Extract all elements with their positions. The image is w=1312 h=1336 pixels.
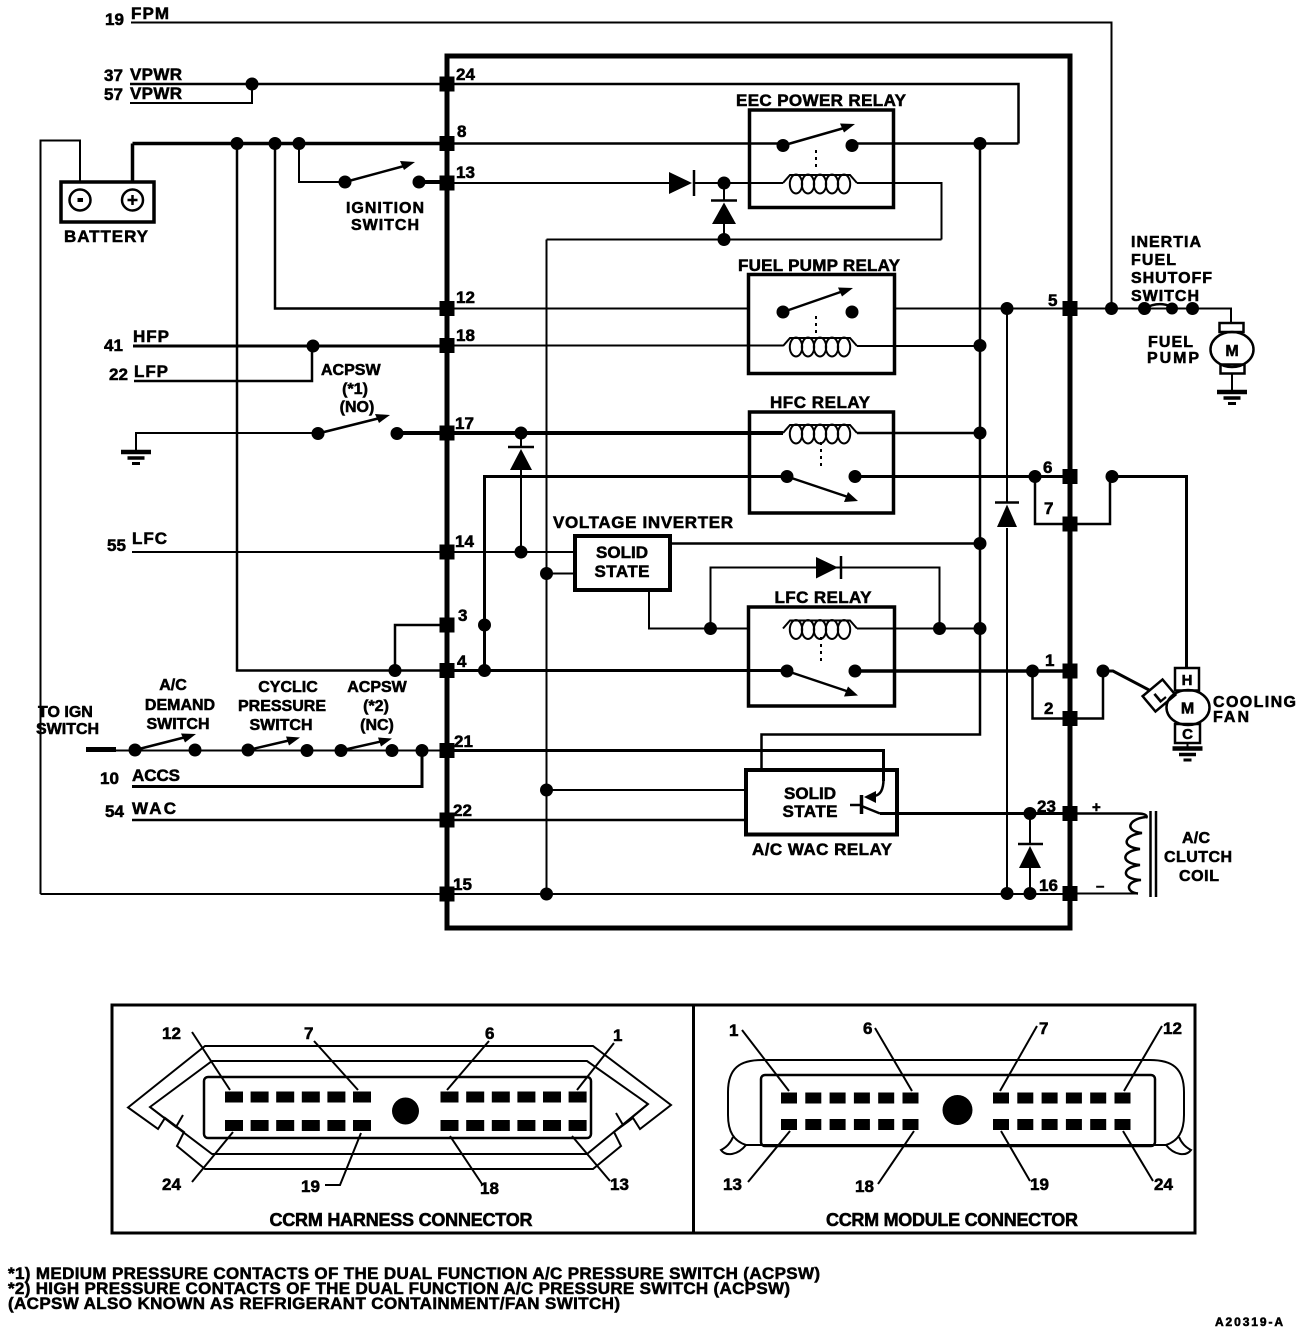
wire inverter output bottom to LFC coil xyxy=(649,590,748,629)
svg-text:IGNITION: IGNITION xyxy=(346,200,424,217)
pin 8 pad xyxy=(440,136,455,151)
diode D1 on pin 13 row xyxy=(669,170,694,196)
wire EEC coil return loop xyxy=(547,183,942,240)
diode D2 vertical at EEC coil xyxy=(711,183,737,240)
svg-text:(ACPSW ALSO KNOWN AS REFRIGERA: (ACPSW ALSO KNOWN AS REFRIGERANT CONTAIN… xyxy=(8,1294,620,1313)
svg-text:FUEL: FUEL xyxy=(1148,334,1193,351)
svg-text:A/C WAC RELAY: A/C WAC RELAY xyxy=(752,840,893,859)
wire pin 23 to clutch coil xyxy=(1074,812,1137,815)
svg-text:VPWR: VPWR xyxy=(130,84,182,103)
svg-text:12: 12 xyxy=(456,288,475,307)
junction pin 5 diode branch xyxy=(1001,302,1014,315)
junction supply bus LFC coil xyxy=(974,622,987,635)
svg-text:BATTERY: BATTERY xyxy=(64,227,149,246)
wire inverter output right to supply bus xyxy=(670,542,980,545)
wire pin 17 row to HFC coil xyxy=(451,431,783,435)
wire FPM to inertia switch xyxy=(131,23,1112,309)
wire EEC coil leads xyxy=(751,182,892,184)
LFC relay U5 xyxy=(749,607,895,706)
svg-text:10: 10 xyxy=(100,769,119,788)
CCRM module connector center post xyxy=(943,1095,973,1125)
wire VPWR 37 to pin 24 xyxy=(130,83,443,86)
wire pin 6 to cooling fan high xyxy=(1112,477,1187,670)
wire branch to pin 3 xyxy=(395,625,443,671)
WAC transistor symbol xyxy=(850,795,880,814)
svg-text:CCRM MODULE CONNECTOR: CCRM MODULE CONNECTOR xyxy=(826,1210,1078,1230)
pin 6 pad xyxy=(1063,469,1078,484)
svg-text:A/C: A/C xyxy=(159,677,187,694)
junction supply bus pin 18 xyxy=(974,339,987,352)
svg-text:55: 55 xyxy=(107,536,126,555)
pin 14 pad xyxy=(440,545,455,560)
svg-text:22: 22 xyxy=(453,801,472,820)
svg-text:(NO): (NO) xyxy=(340,399,375,416)
HFC relay U3 xyxy=(750,412,894,513)
pin 15 pad xyxy=(440,887,455,902)
wire ignition switch feed xyxy=(299,144,345,183)
wire stub to ignition switch xyxy=(86,747,116,752)
wire pin 1 to cooling fan low xyxy=(1103,671,1149,690)
wire pin 24 loop to supply bus xyxy=(451,84,1019,144)
svg-text:14: 14 xyxy=(455,532,474,551)
cooling fan motor M2 xyxy=(1143,668,1210,748)
junction pin 14 diode xyxy=(515,546,528,559)
junction VPWR xyxy=(246,78,259,91)
svg-text:CLUTCH: CLUTCH xyxy=(1164,849,1232,866)
CCRM harness connector shell hooks xyxy=(150,1104,648,1127)
svg-text:19: 19 xyxy=(1030,1175,1049,1194)
svg-text:1: 1 xyxy=(1045,651,1054,670)
junction jumper 1 right xyxy=(1097,665,1110,678)
wire pin 12 row to fuel pump relay xyxy=(451,308,748,310)
A/C clutch coil L1 xyxy=(1125,811,1156,897)
svg-text:(NC): (NC) xyxy=(360,717,394,734)
voltage inverter U4 solid state xyxy=(575,536,670,590)
fuel pump relay U2 xyxy=(749,275,895,374)
svg-text:STATE: STATE xyxy=(783,802,838,821)
ignition switch S1 xyxy=(339,161,426,189)
svg-text:M: M xyxy=(1225,343,1238,360)
svg-text:VPWR: VPWR xyxy=(130,65,182,84)
svg-text:ACPSW: ACPSW xyxy=(321,362,381,379)
svg-text:EEC POWER RELAY: EEC POWER RELAY xyxy=(736,91,907,110)
svg-text:6: 6 xyxy=(485,1024,494,1043)
junction supply bus top xyxy=(974,137,987,150)
junction pin 13 diode branch xyxy=(718,177,731,190)
fuel pump motor M1 xyxy=(1211,323,1254,392)
ACPSW NO switch S2 xyxy=(312,414,404,440)
svg-text:SWITCH: SWITCH xyxy=(249,717,312,734)
wire LFP joins HFP xyxy=(134,346,312,381)
svg-text:SHUTOFF: SHUTOFF xyxy=(1131,270,1212,287)
svg-text:24: 24 xyxy=(1154,1175,1173,1194)
svg-text:37: 37 xyxy=(104,66,123,85)
svg-text:SWITCH: SWITCH xyxy=(351,217,419,234)
svg-text:16: 16 xyxy=(1039,876,1058,895)
svg-text:LFC RELAY: LFC RELAY xyxy=(775,588,873,607)
diode D3 at pin 14 xyxy=(508,433,534,552)
wire battery feed down to pin 12 xyxy=(275,144,443,309)
junction clutch diode bottom xyxy=(1024,887,1037,900)
wire ignition switch to pin 13 xyxy=(419,180,443,184)
wire inverter ground tap xyxy=(547,573,578,575)
wire LFC coil to supply bus xyxy=(857,628,980,630)
ground symbol cooling fan xyxy=(1173,749,1203,761)
svg-text:13: 13 xyxy=(456,163,475,182)
junction battery feed branch A xyxy=(231,137,244,150)
junction pin 4 branch xyxy=(478,664,491,677)
svg-text:24: 24 xyxy=(162,1175,181,1194)
svg-text:SWITCH: SWITCH xyxy=(36,721,99,738)
svg-text:LFP: LFP xyxy=(134,362,168,381)
svg-text:19: 19 xyxy=(105,10,124,29)
svg-text:1: 1 xyxy=(729,1021,738,1040)
svg-text:FPM: FPM xyxy=(131,4,169,23)
wire A/C switch chain xyxy=(112,750,443,752)
svg-text:C: C xyxy=(1182,726,1193,743)
svg-text:8: 8 xyxy=(457,122,466,141)
CCRM harness connector pins top row xyxy=(225,1092,587,1103)
junction ground bus inverter tap xyxy=(540,567,553,580)
svg-text:24: 24 xyxy=(456,65,475,84)
junction ground bus pin 15 xyxy=(540,888,553,901)
LFC relay coil xyxy=(783,620,857,639)
battery B1 xyxy=(61,182,154,222)
svg-text:SWITCH: SWITCH xyxy=(146,716,209,733)
svg-text:17: 17 xyxy=(455,414,474,433)
svg-text:18: 18 xyxy=(480,1179,499,1198)
junction HFP-LFP xyxy=(307,340,320,353)
junction jumper 1 left xyxy=(1026,665,1039,678)
svg-text:7: 7 xyxy=(1044,499,1053,518)
wire pin 13 row xyxy=(451,182,748,184)
EEC power relay U1 xyxy=(750,110,894,208)
svg-text:STATE: STATE xyxy=(595,562,650,581)
CCRM harness connector shell inner xyxy=(150,1061,648,1154)
wire pin 18 row xyxy=(451,345,980,348)
svg-text:13: 13 xyxy=(723,1175,742,1194)
wire WAC output to pin 23 xyxy=(880,812,1066,815)
svg-text:(*1): (*1) xyxy=(342,381,368,398)
svg-text:1: 1 xyxy=(613,1026,622,1045)
pin 17 pad xyxy=(440,426,455,441)
wire pin 21 row xyxy=(451,751,884,782)
junction pins 3-4 split xyxy=(389,664,402,677)
svg-text:TO IGN: TO IGN xyxy=(38,704,93,721)
pin 1 pad xyxy=(1063,664,1078,679)
wire battery negative to left rail xyxy=(41,141,81,895)
junction clutch diode top xyxy=(1024,807,1037,820)
svg-text:CCRM HARNESS CONNECTOR: CCRM HARNESS CONNECTOR xyxy=(270,1210,533,1230)
CCRM harness connector pins bottom row xyxy=(225,1120,587,1131)
junction ACCS tie xyxy=(416,744,429,757)
junction jumper 6 right xyxy=(1106,470,1119,483)
diode D4 pin 5 branch xyxy=(995,309,1019,894)
CCRM module connector pins top row xyxy=(781,1093,1131,1104)
diode D5 loop over LFC coil xyxy=(711,556,940,629)
pin 23 pad xyxy=(1063,806,1078,821)
CCRM module connector pin field xyxy=(761,1075,1155,1146)
wire battery feed down to pins 3 and 4 xyxy=(237,144,395,671)
wire pin 22 row to WAC xyxy=(451,819,746,822)
wire pin 3 to HFC switch xyxy=(485,477,788,671)
svg-text:19: 19 xyxy=(301,1177,320,1196)
svg-text:SWITCH: SWITCH xyxy=(1131,288,1199,305)
wire ground bus vertical xyxy=(546,240,548,895)
svg-text:12: 12 xyxy=(162,1024,181,1043)
svg-text:VOLTAGE INVERTER: VOLTAGE INVERTER xyxy=(553,513,733,532)
svg-text:LFC: LFC xyxy=(132,529,167,548)
CCRM module connector pins bottom row xyxy=(781,1119,1131,1130)
svg-text:2: 2 xyxy=(1044,699,1053,718)
wire pin 4 row to LFC switch xyxy=(451,669,787,672)
svg-text:M: M xyxy=(1181,701,1194,718)
svg-text:INERTIA: INERTIA xyxy=(1131,234,1201,251)
inertia fuel shutoff switch S6 xyxy=(1138,302,1199,315)
fuel pump relay coil xyxy=(783,338,857,357)
pin 24 pad xyxy=(440,77,455,92)
jumper pins 6-7 xyxy=(1035,477,1110,525)
pin 5 pad xyxy=(1063,301,1078,316)
svg-text:21: 21 xyxy=(454,732,473,751)
ACPSW NC switch S5 xyxy=(335,738,399,758)
pin 12 pad xyxy=(440,301,455,316)
svg-text:7: 7 xyxy=(304,1024,313,1043)
svg-text:SOLID: SOLID xyxy=(784,784,836,803)
svg-text:18: 18 xyxy=(456,326,475,345)
svg-text:5: 5 xyxy=(1048,291,1057,310)
wire fuel relay output to pin 5 xyxy=(894,308,1066,310)
pin 22 pad xyxy=(440,813,455,828)
EEC relay coil xyxy=(783,175,857,194)
pin 7 pad xyxy=(1063,517,1078,532)
CCRM harness connector center post xyxy=(392,1098,419,1125)
connector section outer box xyxy=(112,1005,1195,1233)
junction diode D4 to ground row xyxy=(1001,887,1014,900)
HFC relay coil xyxy=(783,425,857,444)
ground symbol fuel pump xyxy=(1217,392,1247,404)
CCRM harness connector shell outer xyxy=(128,1046,671,1169)
svg-text:57: 57 xyxy=(104,85,123,104)
wire pin 5 to fuel pump xyxy=(1074,309,1231,324)
svg-text:3: 3 xyxy=(458,606,467,625)
diode D6 clutch suppression xyxy=(1018,814,1043,894)
junction battery feed ignition branch xyxy=(293,137,306,150)
wire HFP to pin 18 xyxy=(133,345,443,348)
svg-text:ACPSW: ACPSW xyxy=(347,679,407,696)
svg-text:A/C: A/C xyxy=(1182,830,1210,847)
junction LFC diode loop right xyxy=(933,622,946,635)
junction jumper 6 left xyxy=(1029,470,1042,483)
junction supply bus inverter output xyxy=(974,537,987,550)
pin 18 pad xyxy=(440,338,455,353)
junction pin 17 supply dot xyxy=(515,427,528,440)
svg-text:FAN: FAN xyxy=(1213,709,1249,726)
wire LFC to pin 14 xyxy=(132,551,443,553)
wire vertical supply bus xyxy=(762,144,981,769)
svg-text:12: 12 xyxy=(1163,1019,1182,1038)
wire WAC control hook xyxy=(874,779,884,796)
svg-text:6: 6 xyxy=(1043,458,1052,477)
svg-text:(*2): (*2) xyxy=(363,698,389,715)
junction FPM at pin 5 wire xyxy=(1105,302,1118,315)
svg-text:FUEL: FUEL xyxy=(1131,252,1176,269)
svg-text:SOLID: SOLID xyxy=(596,543,648,562)
svg-text:COIL: COIL xyxy=(1179,868,1219,885)
junction pin 3 branch xyxy=(478,619,491,632)
wire VPWR 57 joins VPWR 37 xyxy=(130,84,252,103)
wire WAC to pin 22 xyxy=(132,819,443,822)
wire HFC coil to supply bus xyxy=(857,432,980,435)
A/C demand switch S3 xyxy=(129,734,202,757)
svg-text:PRESSURE: PRESSURE xyxy=(238,698,326,715)
pin 21 pad xyxy=(440,743,455,758)
CCRM harness connector pin field xyxy=(204,1077,591,1138)
arrow into WAC transistor xyxy=(864,791,876,803)
svg-text:4: 4 xyxy=(457,652,467,671)
junction ground bus WAC tap xyxy=(540,784,553,797)
pin 2 pad xyxy=(1063,711,1078,726)
wire ACCS joins chain at pin 21 xyxy=(132,751,422,787)
svg-text:HFP: HFP xyxy=(133,327,169,346)
svg-text:FUEL PUMP RELAY: FUEL PUMP RELAY xyxy=(738,256,901,275)
wire HFC switch to pin 6 xyxy=(855,475,1066,478)
pin 13 pad xyxy=(440,176,455,191)
wire battery positive feed to pin 8 xyxy=(133,144,444,183)
cyclic pressure switch S4 xyxy=(242,737,314,758)
junction supply bus HFC coil xyxy=(974,427,987,440)
jumper pins 1-2 xyxy=(1033,671,1104,719)
wire pin 15 to pin 16 ground row xyxy=(451,893,1066,895)
CCRM module outline xyxy=(447,56,1070,928)
wire WAC ground tap xyxy=(547,789,747,791)
junction LFC diode loop left xyxy=(704,622,717,635)
svg-text:15: 15 xyxy=(453,875,472,894)
svg-text:22: 22 xyxy=(109,365,128,384)
svg-text:ACCS: ACCS xyxy=(132,766,180,785)
svg-text:CYCLIC: CYCLIC xyxy=(258,679,318,696)
wire ACPSW NO to pin 17 xyxy=(397,431,443,435)
wire pin 16 to clutch coil xyxy=(1074,893,1138,895)
wire ground return to pin 15 xyxy=(41,893,444,895)
svg-text:18: 18 xyxy=(855,1177,874,1196)
wire pin 14 row to inverter xyxy=(451,551,577,553)
svg-text:6: 6 xyxy=(863,1019,872,1038)
wire ground to ACPSW NO switch xyxy=(136,433,318,451)
svg-text:41: 41 xyxy=(104,336,123,355)
pin 16 pad xyxy=(1063,886,1078,901)
ground symbol left xyxy=(121,452,151,464)
svg-text:54: 54 xyxy=(105,802,124,821)
svg-text:H: H xyxy=(1182,672,1193,689)
wire LFC switch to pin 1 xyxy=(855,669,1066,673)
svg-text:7: 7 xyxy=(1039,1019,1048,1038)
svg-text:13: 13 xyxy=(610,1175,629,1194)
pin 3 pad xyxy=(440,618,455,633)
CCRM module connector shell xyxy=(728,1060,1184,1145)
A/C WAC relay U6 solid state xyxy=(746,770,897,835)
svg-text:WAC: WAC xyxy=(132,799,176,818)
svg-text:DEMAND: DEMAND xyxy=(145,697,215,714)
svg-text:–: – xyxy=(1096,878,1104,895)
wire pin 8 supply row xyxy=(451,142,1019,145)
svg-text:PUMP: PUMP xyxy=(1147,350,1199,367)
connector section divider xyxy=(692,1005,695,1233)
CCRM module connector shell hooks xyxy=(721,1137,1191,1154)
junction battery feed branch B xyxy=(269,137,282,150)
svg-text:HFC RELAY: HFC RELAY xyxy=(770,393,871,412)
pin 4 pad xyxy=(440,663,455,678)
junction EEC coil return xyxy=(718,233,731,246)
